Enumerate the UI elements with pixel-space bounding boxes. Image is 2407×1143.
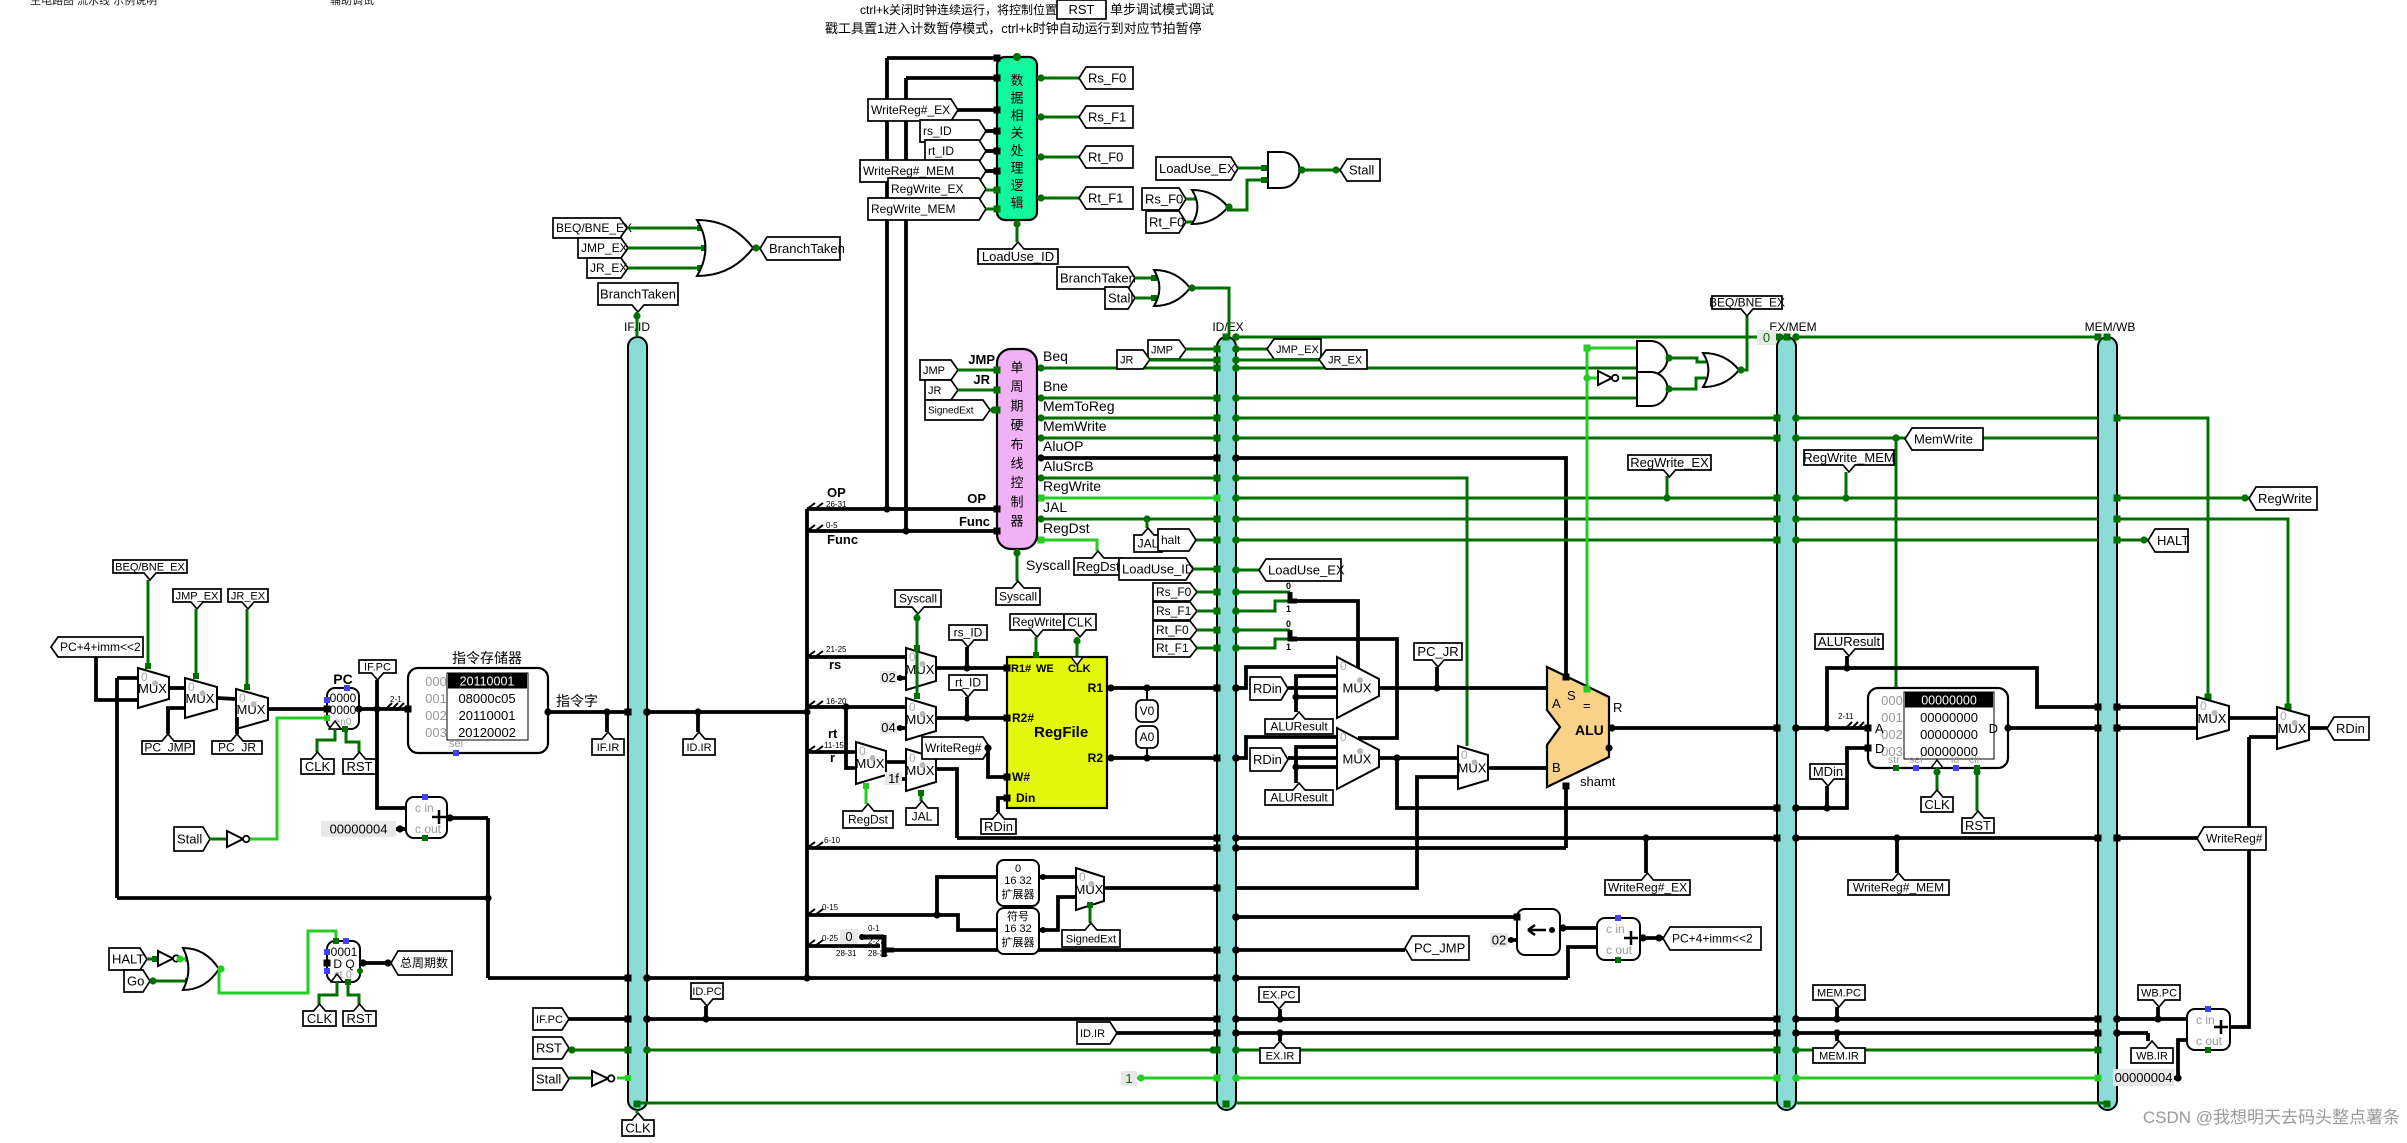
svg-text:00000004: 00000004 (330, 822, 388, 837)
data memory (1868, 688, 2008, 768)
svg-text:IF.PC: IF.PC (364, 661, 391, 673)
tunnel RST bottom (533, 1037, 569, 1059)
svg-text:6-10: 6-10 (824, 836, 841, 845)
tunnel rt_ID above (949, 675, 987, 697)
wire adder drop (486, 818, 490, 978)
wire PC bottom row (568, 1017, 628, 1021)
svg-text:0: 0 (1340, 730, 1347, 744)
wire PC_JMP row right (1236, 948, 1405, 952)
svg-text:Din: Din (1016, 791, 1035, 805)
tunnel PC+4+imm<<2 left (51, 637, 143, 657)
tunnel PC_JR (212, 734, 262, 754)
svg-text:Rs_F0: Rs_F0 (1145, 192, 1183, 207)
svg-text:Rt_F0: Rt_F0 (1156, 623, 1189, 637)
mux pc2 (185, 678, 217, 718)
mux alusrcb (1458, 746, 1488, 789)
tunnel Rs_F0 idex (1153, 583, 1197, 601)
tunnel IF.IR (592, 732, 624, 755)
tunnel RegWrite_MEM mid (1804, 450, 1894, 472)
and gate branch1 (1637, 341, 1668, 375)
mux wb1 (2197, 697, 2229, 739)
svg-text:Stall: Stall (177, 832, 202, 847)
wire JMP_EX row (1236, 348, 1267, 351)
svg-text:总周期数: 总周期数 (400, 955, 448, 970)
wire LoadUse_ID out (1016, 220, 1019, 242)
wire rs mux out (936, 666, 1007, 670)
wire stall enable (250, 718, 327, 839)
wire Rt_F1 right jog (1236, 639, 1290, 648)
svg-text:c out: c out (1606, 943, 1633, 957)
cycle counter (327, 941, 360, 982)
svg-text:Go: Go (127, 974, 144, 989)
svg-text:V0: V0 (1140, 704, 1155, 718)
wire jump addr row (894, 948, 1217, 952)
svg-text:CLK: CLK (305, 759, 331, 774)
svg-text:RegFile: RegFile (1034, 724, 1088, 741)
svg-text:数: 数 (1010, 73, 1023, 88)
wire loaduse row (1193, 568, 1217, 571)
tunnel PC+4+imm<<2 out (1663, 927, 1761, 950)
svg-text:R2: R2 (1088, 751, 1104, 765)
wire left loop vertical (115, 678, 119, 898)
wire Bne row (1037, 397, 1217, 400)
splitter fwdA (1290, 592, 1297, 601)
mux rd2 JAL (906, 749, 936, 791)
wire beqbne to or (627, 227, 706, 230)
wire flush to ID/EX top (1190, 288, 1229, 337)
svg-text:线: 线 (1010, 456, 1023, 471)
wire shifter out (1560, 926, 1597, 930)
wire MemWrite row (1037, 437, 1217, 440)
svg-text:rt: rt (828, 726, 838, 741)
wire counter out (360, 961, 391, 965)
svg-text:PC: PC (333, 671, 352, 687)
wb adder (2187, 1009, 2230, 1050)
svg-text:ALU: ALU (1575, 722, 1604, 738)
svg-text:指令字: 指令字 (556, 693, 598, 709)
wire imm mux out (1104, 886, 1217, 890)
svg-text:0-5: 0-5 (826, 521, 838, 530)
tunnel JAL below rd2 (920, 791, 923, 801)
svg-text:RegDst: RegDst (848, 813, 889, 827)
svg-text:ctrl+k关闭时钟连续运行，将控制位置零，: ctrl+k关闭时钟连续运行，将控制位置零， (860, 2, 1081, 17)
svg-text:16 32: 16 32 (1004, 875, 1032, 887)
svg-text:rs: rs (829, 657, 841, 672)
svg-text:001: 001 (425, 691, 447, 706)
svg-text:Func: Func (827, 532, 858, 547)
svg-text:BEQ/BNE_EX: BEQ/BNE_EX (1709, 296, 1785, 310)
idex control port marks (1214, 365, 1221, 372)
svg-text:=: = (1583, 698, 1591, 713)
wire jr row (1150, 359, 1217, 362)
svg-text:rt_ID: rt_ID (928, 144, 954, 158)
ALU (1547, 667, 1609, 787)
svg-text:AluSrcB: AluSrcB (1043, 458, 1094, 474)
wire instruction word row (548, 710, 628, 714)
wire mid adder out (1640, 936, 1663, 940)
tunnel CLK mem (1936, 768, 1939, 790)
wire jmp row (1186, 348, 1217, 351)
svg-text:Rt_F1: Rt_F1 (1088, 191, 1123, 206)
wire signedext in (990, 409, 997, 412)
wire R1 right jog (1236, 667, 1337, 688)
svg-text:IF.PC: IF.PC (536, 1014, 563, 1026)
wire Beq row (1037, 367, 1217, 370)
svg-text:CSDN @我想明天去码头整点薯条: CSDN @我想明天去码头整点薯条 (2143, 1108, 2400, 1127)
wire and1 to or (1667, 358, 1706, 362)
wire imm target in (96, 657, 138, 700)
tunnel SignedExt ctl (925, 400, 990, 420)
svg-text:LoadUse_ID: LoadUse_ID (982, 249, 1054, 264)
wire rt to rdmux (846, 707, 856, 768)
wire IR bottom row (1106, 1031, 1217, 1035)
wire MemToReg to mux select (2117, 418, 2208, 697)
mux imm (1076, 868, 1104, 910)
pipeline register IF/ID (628, 337, 647, 1110)
tunnel RegWrite right (2249, 487, 2317, 510)
svg-text:ld: ld (1951, 754, 1959, 766)
svg-text:MDin: MDin (1813, 764, 1843, 779)
wire instruction bus vertical (805, 509, 809, 978)
tunnel WriteReg#_MEM in (860, 160, 986, 182)
svg-text:11-15: 11-15 (824, 741, 844, 750)
tunnel JMP_EX pc (173, 589, 221, 609)
svg-text:MEM.IR: MEM.IR (1819, 1050, 1859, 1062)
PC register (327, 688, 359, 729)
svg-text:Beq: Beq (1043, 348, 1068, 364)
bar port marks (1214, 346, 1221, 353)
wire pc4 feedback in (117, 676, 138, 680)
wire mem D row (1796, 748, 1868, 808)
svg-text:WriteReg#_EX: WriteReg#_EX (871, 103, 950, 117)
svg-text:JAL: JAL (912, 810, 933, 824)
svg-text:RST: RST (347, 759, 373, 774)
pipeline register EX/MEM (1777, 337, 1796, 1110)
svg-text:0: 0 (1286, 619, 1291, 629)
tunnel JMP_EX right (1267, 339, 1321, 359)
wire and2 to or (1667, 378, 1706, 389)
tunnel JR_EX right (1319, 350, 1367, 369)
mux rd1 (856, 742, 886, 784)
wire RegWrite row (1037, 497, 1217, 500)
wire jmpex to or (628, 247, 710, 250)
tunnel HALT right (2148, 529, 2188, 552)
svg-text:RegWrite: RegWrite (2258, 491, 2312, 506)
wire hazard in2 (906, 76, 997, 80)
shifter (1517, 909, 1560, 955)
tunnel Syscall below controller (996, 581, 1040, 605)
tunnel ALUResult fwdB (1265, 783, 1333, 805)
svg-text:sel: sel (1909, 754, 1922, 766)
wire AluOP row (1037, 456, 1217, 460)
svg-text:PC_JR: PC_JR (218, 741, 256, 755)
svg-text:JMP_EX: JMP_EX (1276, 344, 1319, 356)
svg-text:RegWrite_MEM: RegWrite_MEM (1803, 450, 1895, 465)
const 02 shift (1490, 933, 1508, 947)
wire aluresult fwdB riser (1296, 747, 1337, 783)
tunnel Stall flush (1105, 287, 1135, 309)
tunnel JR_EX pc (228, 589, 268, 609)
svg-text:RegWrite: RegWrite (1012, 615, 1062, 629)
tunnel RST counter (348, 984, 359, 1004)
pc+4 adder (406, 797, 447, 838)
not gate zeroflag (1587, 377, 1598, 380)
svg-text:JAL: JAL (1043, 499, 1067, 515)
svg-text:Bne: Bne (1043, 378, 1068, 394)
tunnel IF.PC bottom (533, 1008, 569, 1030)
wire 978 to cout (1568, 947, 1597, 978)
svg-text:BranchTaken: BranchTaken (600, 287, 676, 302)
tunnel CLK pc (317, 729, 335, 752)
tunnel ALUResult mem (1815, 634, 1883, 656)
svg-text:CLK: CLK (307, 1011, 333, 1026)
svg-text:Rs_F1: Rs_F1 (1156, 604, 1192, 618)
wire MemWrite drop to memory str (1895, 438, 1898, 766)
not gate stall (227, 831, 243, 847)
svg-text:1f: 1f (888, 771, 899, 786)
svg-text:CLK: CLK (625, 1121, 651, 1136)
svg-text:1: 1 (1286, 604, 1291, 614)
svg-text:布: 布 (1010, 437, 1023, 452)
svg-text:WriteReg#_MEM: WriteReg#_MEM (863, 164, 954, 178)
svg-text:c out: c out (2196, 1034, 2223, 1048)
svg-text:02: 02 (881, 670, 895, 685)
zero extender (997, 860, 1039, 906)
svg-text:PC+4+imm<<2: PC+4+imm<<2 (60, 640, 141, 654)
wire imm to zero extender (937, 877, 997, 915)
svg-text:逻: 逻 (1010, 178, 1023, 193)
wire and to Stall (1298, 169, 1340, 172)
controller 单周期硬布线控制器 (997, 349, 1037, 549)
tunnel CLK counter (319, 982, 337, 1004)
svg-text:JMP: JMP (1151, 344, 1173, 356)
svg-text:00000004: 00000004 (2115, 1070, 2173, 1085)
svg-text:0-15: 0-15 (822, 903, 839, 912)
tunnel RegWrite_MEM in (868, 198, 986, 220)
svg-text:JR: JR (1120, 354, 1134, 366)
or gate go (183, 948, 219, 990)
tunnel CLK above regfile (1064, 614, 1096, 637)
svg-text:CLK: CLK (1067, 615, 1093, 630)
wire RegWrite to tunnel right (2117, 497, 2249, 500)
wire Rs_F1 right jog (1236, 601, 1290, 611)
svg-text:20120002: 20120002 (458, 725, 516, 740)
tunnel BEQ/BNE_EX left (553, 218, 627, 238)
const 1 (1121, 1071, 1137, 1086)
tunnel RDin fwdA (1250, 677, 1288, 700)
svg-text:R2#: R2# (1012, 711, 1034, 725)
svg-text:JR: JR (973, 372, 990, 387)
wire bmux out (1488, 766, 1547, 770)
tunnel RegWrite_EX mid (1628, 455, 1711, 477)
wire PC out row (359, 707, 408, 711)
RST box top (1057, 0, 1106, 19)
svg-text:0-1: 0-1 (868, 924, 880, 933)
mux pc3 (236, 689, 268, 729)
wire WriteReg row junctions (1642, 834, 1649, 841)
svg-text:RST: RST (1069, 2, 1095, 17)
mid adder (1597, 918, 1640, 960)
tunnel rs_ID in (920, 120, 986, 142)
wire Rs_F0 out (1037, 77, 1079, 80)
tunnel SignedExt below (1089, 903, 1092, 923)
svg-text:S: S (1567, 688, 1576, 703)
or gate flush (1154, 270, 1190, 306)
svg-text:RegWrite_EX: RegWrite_EX (891, 182, 963, 196)
hazard unit 数据相关处理逻辑 (997, 57, 1037, 220)
wire or out to BEQ/BNE_EX (1739, 316, 1747, 370)
tunnel MEM.PC (1813, 985, 1865, 1007)
svg-text:W#: W# (1012, 770, 1030, 784)
svg-text:ID.IR: ID.IR (686, 742, 711, 754)
svg-text:rs_ID: rs_ID (923, 124, 952, 138)
tunnel LoadUse_EX stall (1156, 157, 1238, 180)
tunnel RDin fwdB (1250, 748, 1288, 771)
tunnel RegWrite above regfile (1010, 614, 1064, 637)
wire rt mux out (936, 716, 1007, 720)
wire pc1 out (169, 686, 185, 690)
svg-text:RST: RST (347, 1011, 373, 1026)
svg-text:rs_ID: rs_ID (954, 626, 983, 640)
wire fwdB out (1379, 756, 1458, 760)
tunnel RDin to Din (981, 812, 1016, 834)
svg-text:RegWrite_EX: RegWrite_EX (1630, 455, 1709, 470)
svg-text:RDin: RDin (1253, 681, 1282, 696)
wire AluSrcB row (1037, 477, 1217, 480)
wire Rs_F1 row (1197, 610, 1217, 613)
svg-text:02: 02 (1492, 933, 1506, 948)
wire CLK row (647, 1102, 1217, 1105)
wire syscall selects (916, 614, 919, 698)
svg-text:A: A (1875, 721, 1884, 736)
tunnel Rs_F0 out (1079, 67, 1133, 89)
tunnel Rt_F1 out (1079, 187, 1133, 209)
wire aluresult fwdA riser (1296, 676, 1337, 712)
svg-text:处: 处 (1010, 143, 1023, 158)
wire Rs_F0 row (1197, 591, 1217, 594)
probe A0 (1136, 726, 1158, 748)
wire exmem aluresult row (1796, 726, 1868, 730)
svg-text:003: 003 (425, 725, 447, 740)
svg-text:据: 据 (1010, 91, 1023, 106)
wire LoadUse_EX right (1236, 569, 1259, 572)
svg-text:0: 0 (1340, 659, 1347, 673)
mux wb2 (2277, 707, 2309, 749)
svg-text:WriteReg#_MEM: WriteReg#_MEM (1853, 881, 1944, 895)
svg-text:WB.PC: WB.PC (2141, 987, 2177, 999)
svg-text:单: 单 (1010, 360, 1023, 375)
svg-text:04: 04 (881, 720, 895, 735)
svg-text:0: 0 (1015, 863, 1021, 875)
wire wb vertical from adder (2228, 737, 2249, 1027)
svg-text:HALT: HALT (112, 952, 144, 967)
svg-text:指令存储器: 指令存储器 (452, 650, 522, 666)
regfile box (1007, 657, 1107, 808)
svg-text:RegWrite: RegWrite (1043, 478, 1101, 494)
svg-text:PC_JMP: PC_JMP (144, 741, 191, 755)
svg-text:MUX: MUX (1343, 752, 1372, 767)
svg-text:制: 制 (1010, 494, 1023, 509)
svg-text:扩展器: 扩展器 (1002, 887, 1035, 901)
tunnel Stall pc (174, 827, 210, 851)
wire MemToReg row (1037, 417, 1217, 420)
svg-text:D: D (1989, 721, 1998, 736)
wire rd1 out (886, 760, 906, 764)
svg-text:WriteReg#: WriteReg# (925, 741, 982, 755)
const 1f (885, 772, 902, 785)
svg-text:26-31: 26-31 (826, 500, 847, 509)
svg-text:00000000: 00000000 (1921, 694, 1977, 708)
splitter fwdB (1290, 630, 1297, 639)
tunnel BEQ/BNE_EX pc (113, 560, 187, 580)
wire RegWrite_MEM stem (1845, 472, 1848, 498)
svg-text:2-1: 2-1 (390, 695, 402, 704)
svg-text:RDin: RDin (2336, 721, 2365, 736)
mux fwdB (1337, 728, 1379, 789)
const 0 at EX/MEM top (1757, 330, 1776, 345)
svg-text:A: A (1552, 696, 1561, 711)
svg-text:c in: c in (1606, 922, 1625, 936)
tunnel Syscall above muxes (895, 590, 941, 614)
svg-text:Syscall: Syscall (999, 590, 1037, 604)
tunnel Rt_F0 idex (1153, 621, 1197, 639)
tunnel Rt_F0 stall (1146, 211, 1186, 233)
svg-text:R: R (1613, 700, 1622, 715)
wire OP row (807, 507, 997, 511)
svg-text:Stall: Stall (1349, 163, 1374, 178)
svg-text:rt_ID: rt_ID (955, 676, 981, 690)
svg-text:EX.PC: EX.PC (1262, 989, 1295, 1001)
svg-text:MUX: MUX (1343, 681, 1372, 696)
svg-text:A0: A0 (1140, 730, 1155, 744)
svg-text:ALUResult: ALUResult (1818, 634, 1881, 649)
svg-text:000: 000 (1881, 693, 1903, 708)
wire stall not to ifid (617, 1077, 628, 1080)
wire rs row (807, 655, 906, 659)
wire halt not out (178, 958, 190, 961)
tunnel BranchTaken flush (1057, 267, 1135, 289)
wire row top link (1236, 336, 1777, 339)
svg-text:ID.IR: ID.IR (1080, 1028, 1105, 1040)
svg-text:JR: JR (928, 385, 942, 397)
svg-text:LoadUse_EX: LoadUse_EX (1268, 563, 1345, 578)
const 00000004 left (321, 821, 396, 837)
tunnel RDin result (2327, 717, 2369, 740)
svg-text:扩展器: 扩展器 (1002, 935, 1035, 949)
svg-text:shamt: shamt (1580, 774, 1616, 789)
wire Rt_F0 row (1197, 629, 1217, 632)
tunnel JMP idex (1148, 340, 1186, 359)
wire vertical to OP row (885, 58, 889, 509)
svg-text:D: D (1875, 741, 1884, 756)
svg-text:00000000: 00000000 (1920, 727, 1978, 742)
svg-text:RDin: RDin (984, 819, 1013, 834)
wire wb1 out (2229, 716, 2277, 720)
or gate stall (1192, 190, 1228, 224)
svg-text:00000000: 00000000 (1920, 710, 1978, 725)
and gate branch2 (1637, 372, 1668, 406)
wire HALT to tunnel (2117, 539, 2148, 542)
svg-text:MemToReg: MemToReg (1043, 398, 1115, 414)
svg-text:WB.IR: WB.IR (2136, 1050, 2168, 1062)
svg-text:16 32: 16 32 (1004, 923, 1032, 935)
tunnel RST mem (1976, 768, 1979, 811)
wire wb adder const (2113, 1069, 2174, 1086)
tunnel WB.PC (2138, 985, 2180, 1007)
svg-text:c in: c in (415, 801, 434, 815)
wire JR_EX row (1236, 359, 1319, 362)
tunnel Go (124, 970, 150, 992)
